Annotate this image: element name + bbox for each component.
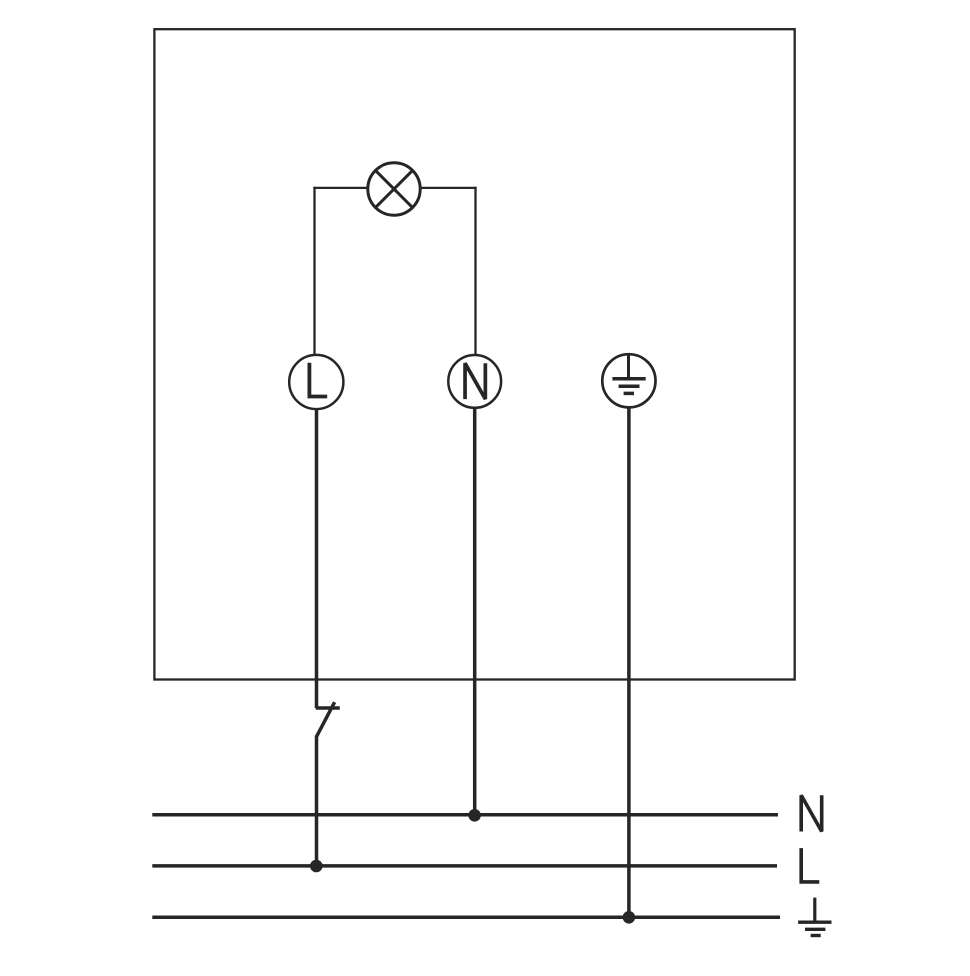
junction dot on L bus: [310, 860, 323, 873]
terminal L letter label: [309, 363, 327, 397]
terminal PE earth symbol: [612, 354, 645, 393]
wire terminal PE down to PE bus: [627, 406, 631, 917]
lamp: [368, 163, 420, 215]
label L (L bus): [801, 848, 819, 882]
wire lamp left vertical (to terminal L): [313, 187, 315, 356]
switch fixed contact: [316, 706, 340, 710]
wire terminal N down to N bus: [473, 407, 477, 816]
terminal PE (earth): [602, 354, 655, 407]
net PE bus wire: [152, 915, 780, 919]
junction dot on N bus: [468, 809, 481, 822]
terminal N letter label: [465, 363, 485, 399]
junction dot on PE bus: [623, 911, 636, 924]
switch blade: [316, 702, 334, 737]
label N (N bus): [801, 795, 822, 831]
wire switch down to L bus: [315, 736, 319, 867]
terminal N: [448, 355, 501, 408]
wire lamp left horizontal: [313, 187, 368, 189]
wire terminal L down to switch: [315, 408, 319, 708]
wire lamp right horizontal: [420, 187, 477, 189]
device outline: [154, 29, 794, 679]
net N bus wire: [152, 813, 778, 817]
wire lamp right vertical (to terminal N): [474, 187, 476, 356]
net L bus wire: [152, 864, 777, 868]
terminal L: [289, 355, 343, 409]
earth symbol (PE bus label): [798, 898, 831, 936]
